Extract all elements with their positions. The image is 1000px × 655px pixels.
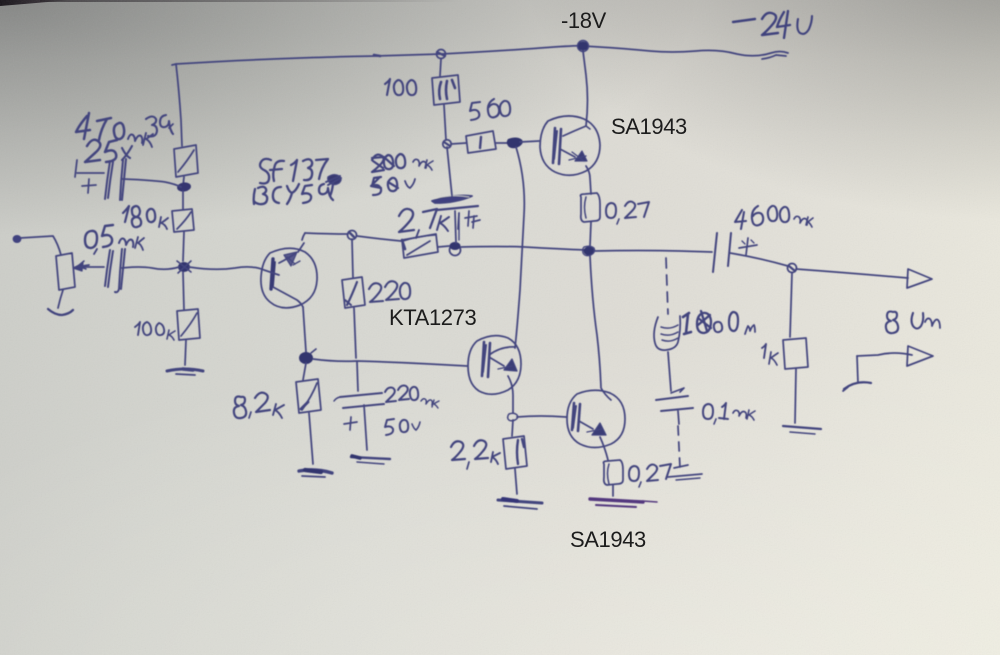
wire Q1 base from node B [189, 267, 279, 275]
resistor 0,27 top [581, 193, 601, 222]
Q1 emitter [273, 287, 303, 307]
Q3top base bars [553, 128, 561, 164]
node under 100 [443, 140, 451, 148]
Q3top emitter arrow [560, 149, 587, 161]
wire 1k to ground [795, 369, 796, 423]
node 220 top junction circle [348, 231, 357, 240]
wire blob down to Q2 collector [515, 147, 524, 348]
wire output node down to Q3 bottom collector [590, 256, 611, 400]
Q3top collector up wire [563, 51, 590, 136]
resistor 100 [432, 75, 460, 105]
label KTA1273 [389, 306, 476, 330]
transistor Q2 KTA1273 circle [468, 336, 521, 395]
wire 39k to node A [183, 177, 184, 186]
wire 220 resistor top [352, 239, 353, 278]
node output junction [583, 246, 595, 255]
label 0,1mk [703, 403, 755, 424]
wire node A to 180k [182, 191, 184, 209]
ground 1k [783, 426, 821, 434]
resistor 2,2k [503, 436, 527, 469]
capacitor plus marks [458, 211, 480, 229]
wire 100/560 node down to cap [447, 147, 452, 196]
wire rail corner down to 39k [176, 64, 182, 146]
wire pot to 0,5mk [83, 266, 104, 268]
wire cap to ground [364, 405, 367, 450]
ground 2,2k [498, 499, 542, 509]
plus 220mk [344, 417, 357, 430]
wire 470mk to node A [122, 179, 181, 187]
wire 100k to ground [185, 340, 186, 365]
node base blob junction [507, 138, 523, 149]
label 25v [85, 140, 132, 162]
wire emitter node to Q2 base [313, 359, 467, 366]
label SF137 [260, 159, 328, 184]
Q2 base bars [482, 342, 490, 377]
wire input terminal to pot [20, 236, 61, 255]
wire 560 to base blob [496, 142, 508, 144]
Q2 emitter wire down [508, 376, 513, 413]
scribble blob after SF137 [326, 175, 341, 185]
dashed end tick [668, 474, 702, 480]
node Q1 emitter blob [299, 349, 316, 364]
wire collector rail horizontal [305, 233, 348, 234]
resistor 180k [172, 209, 194, 232]
label 100k [135, 322, 175, 340]
wire 2,7k to node [438, 246, 449, 247]
label 1000m scribbled [683, 311, 755, 334]
label 100 [385, 79, 416, 95]
capacitor 220mk/50v bottom plate [437, 206, 478, 210]
transistor Q3 bottom SA1943 circle [567, 390, 625, 447]
capacitor 220mk/50v top plate [432, 196, 472, 203]
Q3bot emitter wire down [600, 437, 608, 460]
capacitor 220mk/50v plates [334, 393, 384, 408]
speaker/cap can 1000m [654, 316, 680, 350]
wire 0,27 to output node [590, 222, 591, 246]
Q2 collector wire up [489, 347, 515, 355]
ground 8,2k [299, 470, 332, 477]
label 50v scribbled [371, 177, 415, 195]
label 220 [369, 281, 410, 302]
Q3bot emitter arrow [579, 421, 606, 435]
node B junction blob [177, 261, 191, 273]
wire pot to ground [58, 290, 63, 308]
label 4600mk [735, 206, 813, 229]
wire cap to mid node [455, 211, 459, 243]
label 220mk scribbled [372, 154, 433, 172]
input terminal dot [13, 235, 22, 243]
wire Q1 emitter down to node [303, 307, 306, 352]
label 50v bottom [385, 419, 420, 435]
resistor 220 [342, 277, 365, 308]
camera background dark wedge top-left [0, 0, 72, 6]
ground pot [48, 309, 73, 315]
resistor 2,7k [402, 234, 438, 258]
wire return terminal [857, 353, 912, 383]
label 0,5mk [85, 225, 144, 254]
transistor Q3 top SA1943 circle [540, 116, 600, 175]
ground Q3 thick [590, 499, 657, 507]
wire node to 2,2k [512, 420, 513, 436]
label 220mk 50v [385, 386, 439, 409]
capacitor 4600mk plates [713, 233, 731, 272]
wire 0,5mk to node B [122, 267, 179, 269]
label 2,2k [451, 440, 500, 469]
node out right [788, 264, 797, 273]
wire 180k to node B [183, 232, 184, 261]
resistor 39k [174, 145, 198, 177]
wire 2,2k to ground [515, 469, 517, 494]
label 180k [123, 206, 168, 229]
plus sign of 470mk [82, 179, 96, 193]
label 470mk [76, 113, 153, 147]
wire 0,27 to ground [612, 485, 614, 496]
output arrow bottom [907, 346, 933, 366]
wire node to 560 [451, 143, 466, 144]
node 100 on top rail [437, 50, 446, 59]
resistor 100k [177, 309, 200, 340]
ground 100k [167, 369, 203, 375]
wire 8,2k to ground [309, 413, 313, 464]
node mid rail junction [450, 242, 461, 256]
node -18V on rail [577, 41, 589, 52]
wire to output arrow [796, 269, 908, 278]
label 39k [146, 115, 173, 136]
wire Q1 collector to rail [302, 233, 305, 240]
label BCY59 [254, 184, 333, 204]
label 0,27 bottom [629, 464, 688, 487]
resistor 8,2k [296, 379, 321, 413]
label 2,7k [399, 209, 449, 238]
Q3bot base bars [572, 403, 580, 431]
Q1 base bar [271, 259, 275, 289]
wire out node to 1k [790, 273, 792, 337]
capacitor 470mk 25v plates [105, 159, 126, 200]
potentiometer input box [56, 253, 89, 290]
Q3top emitter down wire [586, 166, 591, 194]
ground 220mk [351, 456, 390, 464]
label 8 Om [886, 312, 940, 334]
wire junction to 220mk cap [357, 362, 358, 391]
wire top power rail -24V [172, 46, 788, 65]
dashed wire below 0,1mk [678, 426, 680, 468]
capacitor 470mk left lead and terminal [75, 160, 104, 177]
wire node to 8,2k [303, 363, 306, 380]
wire node B to 100k [183, 272, 184, 310]
wire can to 0,1mk [668, 352, 671, 391]
wire output node to 4600mk [594, 251, 712, 253]
capacitor 0,1mk [656, 388, 693, 424]
wire mid rail right [461, 247, 586, 251]
label -18V [561, 9, 606, 33]
label SA1943 bottom [570, 528, 646, 552]
label SA1943 top [611, 115, 687, 139]
transistor Q1 SF137/BCY59 circle [261, 248, 317, 308]
resistor 0,27 bottom [604, 460, 624, 485]
dashed wire from mid rail [666, 258, 668, 314]
wire node to 2,7k [357, 236, 401, 241]
wire 100 to node [444, 105, 446, 140]
dark sliver along top edge [40, 0, 460, 2]
wire 220 to emitter line junction [354, 308, 356, 358]
plus 4600mk [739, 238, 757, 255]
Q2 emitter arrow [489, 357, 517, 371]
wire rail node to 100 [440, 59, 441, 76]
wire Q2 emitter to Q3 base [517, 416, 566, 417]
node A junction blob [176, 181, 191, 192]
output arrow top [907, 269, 932, 288]
node Q2 emitter junction [508, 413, 518, 421]
label 1k [762, 344, 778, 365]
ground return [843, 382, 871, 391]
Q1 collector arrow [279, 243, 304, 266]
resistor 560 [466, 131, 496, 153]
wire 4600mk to out node [730, 253, 788, 266]
wire blob to Q3top base [520, 141, 539, 142]
label 8,2k [234, 393, 284, 418]
capacitor 0,5mk plates [105, 249, 125, 292]
label 560 [470, 99, 510, 120]
label 0,27 top [606, 202, 649, 224]
resistor 1k [783, 338, 808, 369]
